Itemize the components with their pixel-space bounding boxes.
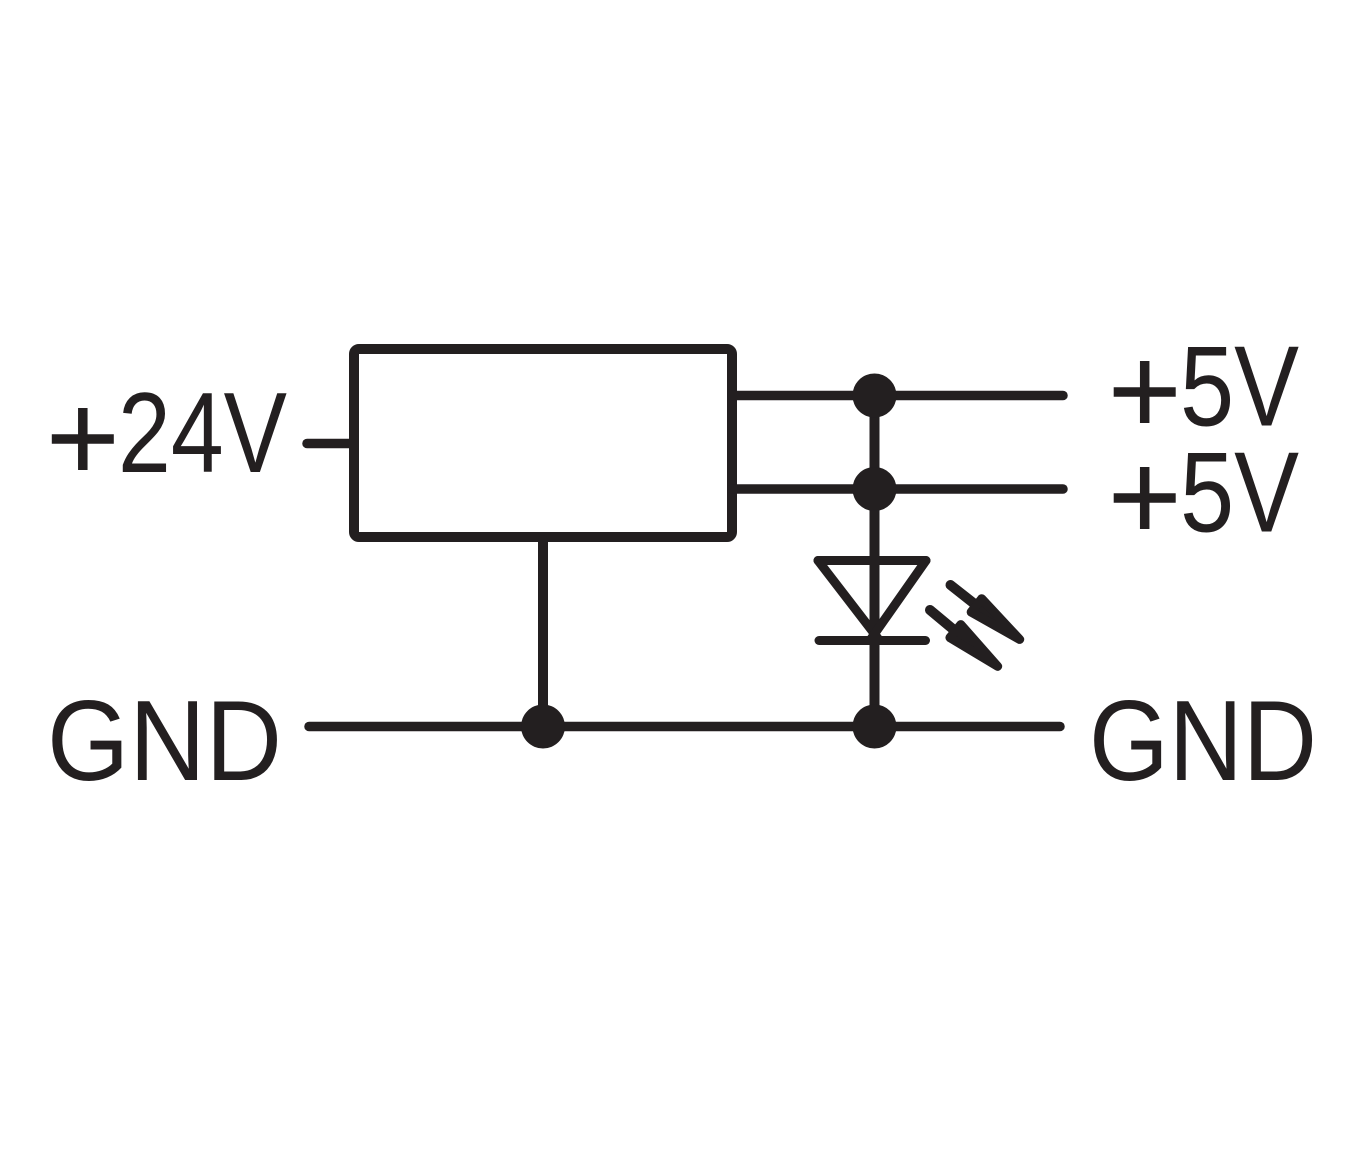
LED light arrow 2	[925, 603, 1003, 672]
svg-text:5V: 5V	[1180, 430, 1299, 557]
LED light arrow 1	[945, 578, 1025, 646]
svg-text:GND: GND	[47, 678, 282, 805]
svg-text:GND: GND	[1089, 678, 1317, 805]
label +5V (upper) plus sign	[1114, 361, 1176, 423]
wire +5V output 1	[732, 391, 1063, 401]
LED D1 triangle	[818, 561, 926, 641]
junction dot LED GND node	[853, 705, 897, 749]
wire GND bus	[309, 722, 1060, 732]
label +5V (lower) plus sign	[1114, 467, 1176, 529]
wire LED anode column	[870, 396, 880, 727]
LED D1 cathode bar	[819, 636, 926, 645]
junction dot block GND node	[521, 705, 565, 749]
svg-text:24V: 24V	[118, 370, 287, 497]
wire +24V input	[307, 439, 354, 449]
junction dot node +5V-2	[853, 467, 897, 511]
DC/DC converter block U1	[354, 349, 732, 537]
junction dot node +5V-1	[853, 374, 897, 418]
label +24V plus sign	[52, 408, 114, 470]
wire block ground return	[538, 540, 548, 727]
wire +5V output 2	[732, 484, 1063, 494]
